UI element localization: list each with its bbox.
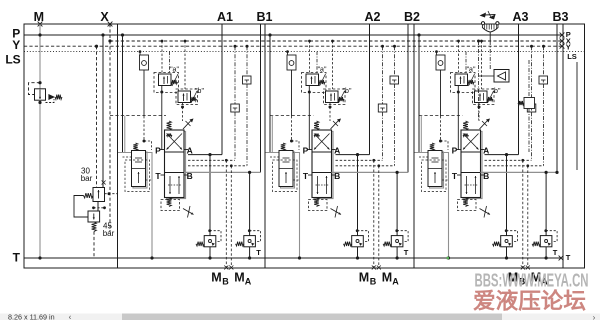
svg-text:A2: A2 [365, 10, 381, 24]
svg-text:BBS:WWW.MEYA.CN: BBS:WWW.MEYA.CN [475, 271, 589, 291]
svg-text:A: A [245, 277, 252, 287]
svg-text:Y: Y [12, 38, 20, 52]
svg-text:B3: B3 [553, 10, 569, 24]
svg-text:bar: bar [103, 229, 115, 238]
svg-text:B1: B1 [257, 10, 273, 24]
svg-text:B: B [370, 277, 377, 287]
svg-text:A: A [392, 277, 399, 287]
svg-text:‹: ‹ [69, 312, 72, 320]
svg-text:T: T [553, 248, 558, 257]
svg-text:T: T [452, 171, 458, 181]
svg-text:M: M [211, 271, 221, 285]
svg-text:"a": "a" [467, 67, 476, 74]
svg-text:"a": "a" [170, 67, 179, 74]
svg-text:A: A [483, 145, 489, 155]
svg-text:爱液压论坛: 爱液压论坛 [473, 289, 586, 314]
svg-text:T: T [303, 171, 309, 181]
svg-text:›: › [593, 313, 596, 320]
svg-text:P: P [452, 145, 458, 155]
svg-text:A3: A3 [513, 10, 529, 24]
svg-text:M: M [234, 271, 244, 285]
svg-text:A: A [334, 145, 340, 155]
svg-text:"a": "a" [318, 67, 327, 74]
svg-text:"b": "b" [343, 88, 352, 95]
svg-text:A1: A1 [217, 10, 233, 24]
svg-text:bar: bar [81, 174, 93, 183]
svg-text:"b": "b" [195, 88, 204, 95]
svg-text:M: M [382, 271, 392, 285]
svg-text:B2: B2 [404, 10, 420, 24]
svg-text:Y: Y [566, 42, 571, 51]
svg-text:T: T [256, 248, 261, 257]
svg-text:A: A [187, 145, 193, 155]
svg-text:M: M [359, 271, 369, 285]
svg-text:T: T [566, 253, 571, 262]
svg-text:B: B [222, 277, 229, 287]
svg-text:T: T [404, 248, 409, 257]
svg-text:P: P [303, 145, 309, 155]
svg-text:8.26 x 11.69 in: 8.26 x 11.69 in [8, 312, 55, 320]
svg-text:LS: LS [567, 52, 577, 61]
svg-text:T: T [13, 251, 21, 265]
svg-text:T: T [155, 171, 161, 181]
svg-text:P: P [155, 145, 161, 155]
svg-text:LS: LS [5, 53, 20, 67]
svg-text:"b": "b" [492, 88, 501, 95]
